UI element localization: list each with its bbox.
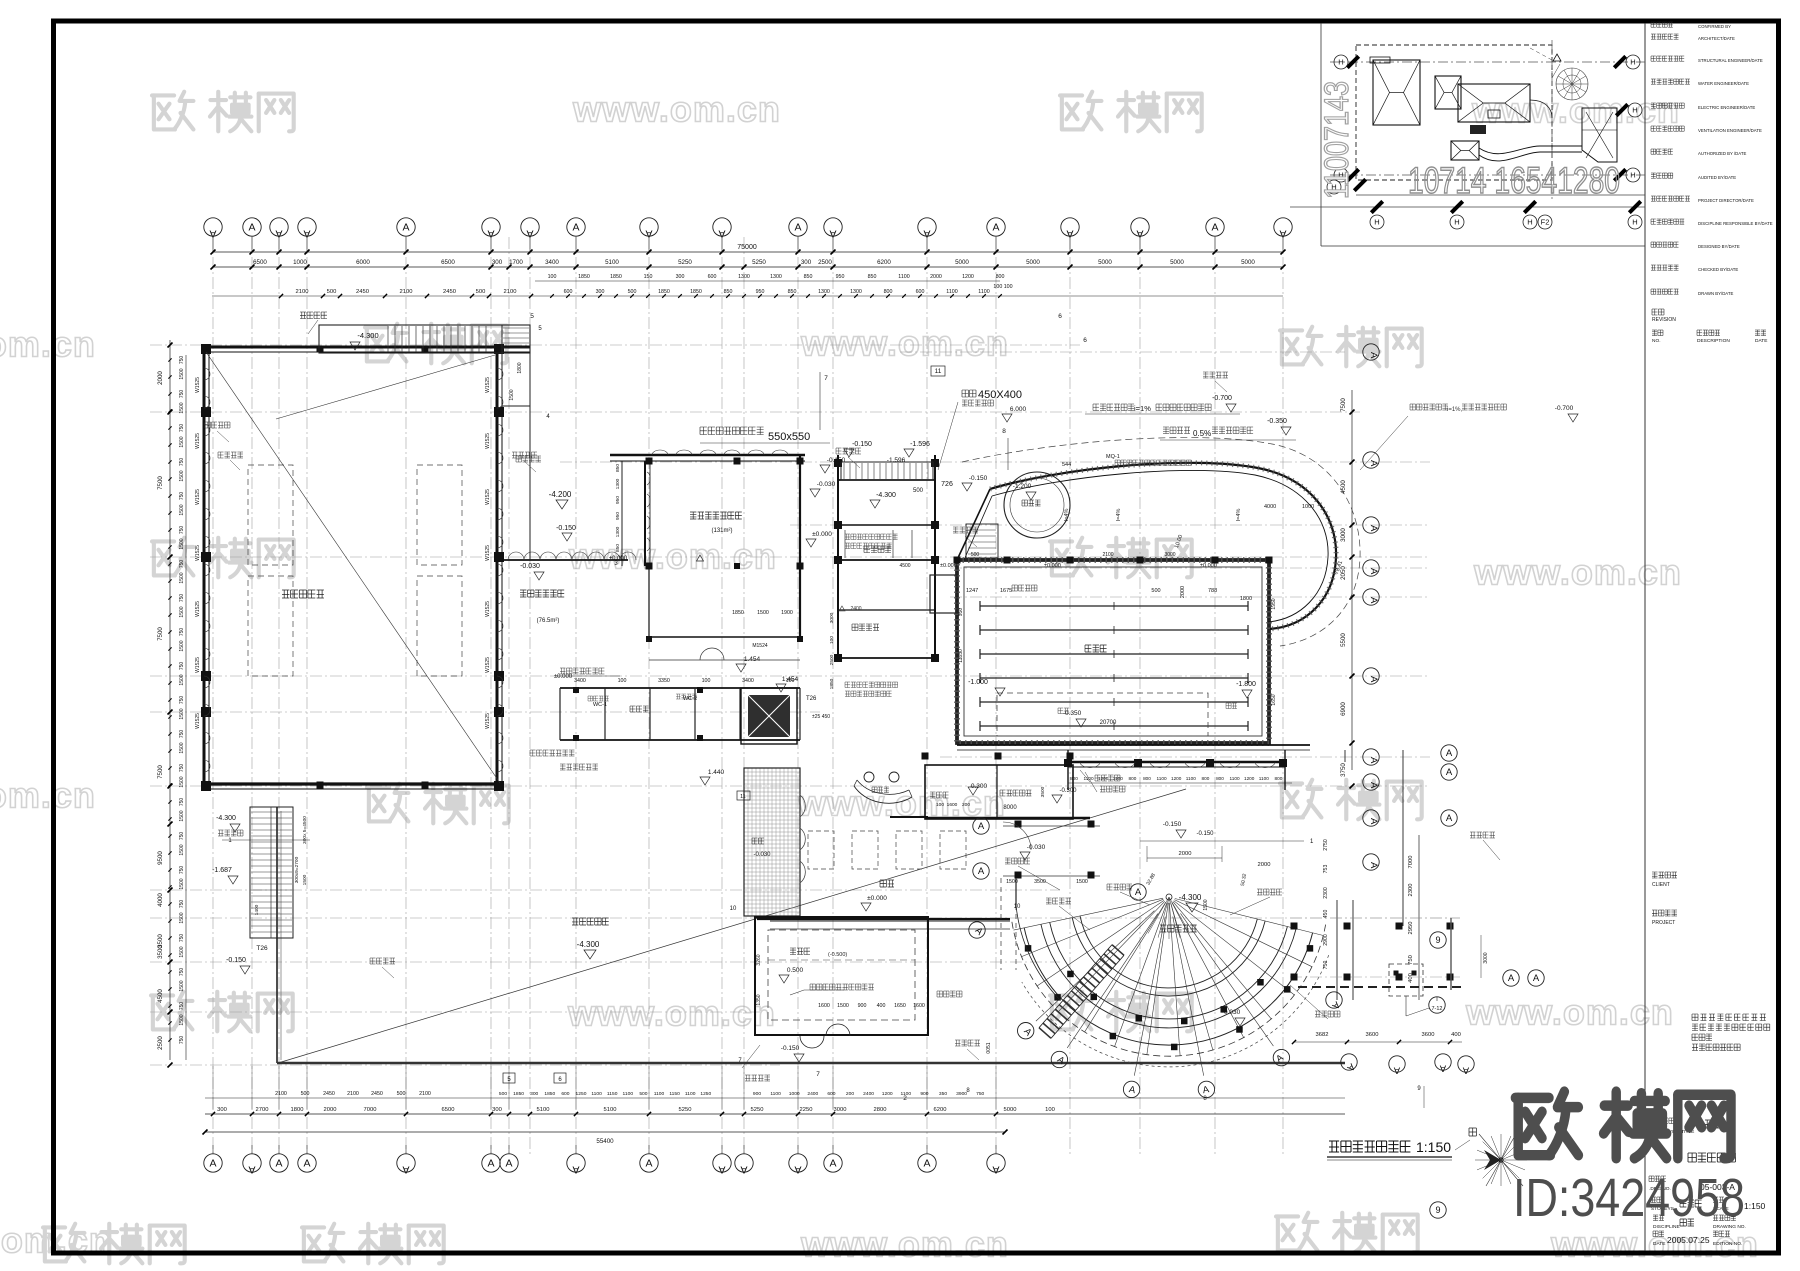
svg-text:1100: 1100: [770, 1091, 781, 1097]
svg-text:500: 500: [971, 552, 980, 558]
svg-text:1100: 1100: [898, 274, 909, 280]
svg-text:1500: 1500: [179, 504, 185, 515]
svg-text:2950: 2950: [1408, 922, 1414, 935]
svg-text:H: H: [1632, 218, 1637, 227]
svg-text:DISCIPLINE RESPONSIBLE BY/DATE: DISCIPLINE RESPONSIBLE BY/DATE: [1698, 221, 1773, 226]
svg-text:A: A: [978, 866, 985, 877]
svg-text:9: 9: [1435, 935, 1440, 945]
svg-text:800: 800: [996, 274, 1005, 280]
svg-text:3400: 3400: [742, 678, 754, 684]
svg-text:2100: 2100: [296, 289, 309, 295]
svg-text:750: 750: [179, 662, 185, 671]
svg-text:A: A: [487, 1158, 494, 1170]
svg-text:750: 750: [1408, 955, 1414, 965]
svg-text:-0.150: -0.150: [226, 957, 246, 964]
svg-text:2000: 2000: [324, 1107, 337, 1113]
svg-text:1250: 1250: [700, 1091, 711, 1097]
svg-text:3400: 3400: [574, 678, 586, 684]
svg-text:A: A: [572, 222, 579, 234]
svg-text:5000: 5000: [1241, 259, 1255, 266]
svg-text:-0.150: -0.150: [1163, 821, 1182, 828]
svg-text:1850: 1850: [732, 610, 744, 616]
svg-text:A: A: [794, 222, 801, 234]
svg-text:1850: 1850: [610, 274, 622, 280]
svg-text:A: A: [402, 1164, 409, 1176]
svg-text:A: A: [794, 1164, 801, 1176]
svg-text:11: 11: [935, 368, 942, 375]
svg-text:3600: 3600: [1366, 1032, 1379, 1038]
svg-text:3000: 3000: [1483, 952, 1489, 963]
svg-text:3500: 3500: [157, 934, 164, 948]
svg-text:2450: 2450: [443, 289, 456, 295]
svg-text:7: 7: [824, 375, 828, 382]
svg-text:1500: 1500: [179, 606, 185, 617]
svg-text:500: 500: [476, 289, 486, 295]
svg-text:DESCRIPTION: DESCRIPTION: [1697, 338, 1730, 344]
svg-text:-0.030: -0.030: [753, 852, 771, 858]
svg-text:A: A: [1368, 862, 1379, 869]
svg-text:H: H: [1454, 218, 1459, 227]
svg-text:1000: 1000: [789, 1091, 800, 1097]
svg-text:-1.596: -1.596: [887, 457, 906, 464]
svg-text:100: 100: [1045, 1107, 1055, 1113]
svg-text:800: 800: [1274, 776, 1282, 781]
svg-text:1.454: 1.454: [782, 676, 799, 683]
svg-text:AUDITED BY/DATE: AUDITED BY/DATE: [1698, 175, 1736, 180]
svg-text:800: 800: [1201, 776, 1209, 781]
svg-text:800: 800: [1216, 776, 1224, 781]
svg-text:750: 750: [179, 866, 185, 875]
svg-text:750: 750: [179, 934, 185, 943]
svg-text:750: 750: [976, 1091, 984, 1097]
svg-text:www.om.cn: www.om.cn: [567, 993, 776, 1034]
svg-text:1650: 1650: [1271, 694, 1277, 705]
svg-text:A: A: [1368, 676, 1379, 683]
svg-text:850: 850: [615, 464, 621, 472]
svg-text:A: A: [978, 821, 985, 832]
svg-text:3400: 3400: [545, 259, 559, 266]
svg-text:500: 500: [397, 1091, 406, 1097]
svg-text:2450: 2450: [371, 1091, 383, 1097]
svg-text:A: A: [572, 1164, 579, 1176]
svg-text:100: 100: [618, 678, 627, 684]
svg-text:AUTHORIZED BY /DATE: AUTHORIZED BY /DATE: [1698, 151, 1746, 156]
svg-text:-1.687: -1.687: [212, 867, 232, 874]
svg-text:A: A: [275, 1158, 282, 1170]
svg-text:400: 400: [1451, 1032, 1461, 1038]
svg-text:2300: 2300: [1408, 884, 1414, 897]
svg-text:1100: 1100: [591, 1091, 602, 1097]
svg-text:WC-1: WC-1: [593, 702, 607, 708]
svg-text:7000: 7000: [1408, 856, 1414, 869]
svg-text:5250: 5250: [678, 259, 692, 266]
svg-text:www.om.cn: www.om.cn: [572, 89, 781, 130]
svg-text:6200: 6200: [877, 259, 891, 266]
svg-text:CLIENT: CLIENT: [1652, 882, 1670, 888]
svg-text:MQ-1: MQ-1: [1106, 454, 1120, 460]
svg-text:-4.300: -4.300: [577, 940, 600, 949]
svg-text:A: A: [718, 1164, 725, 1176]
svg-text:1100: 1100: [1259, 776, 1269, 781]
svg-text:-0.030: -0.030: [1027, 844, 1046, 851]
svg-text:500: 500: [913, 488, 924, 494]
svg-text:400: 400: [877, 1003, 886, 1009]
svg-text:1350: 1350: [756, 994, 762, 1005]
svg-text:2000: 2000: [1180, 586, 1186, 598]
svg-text:2450: 2450: [356, 289, 369, 295]
svg-text:(-0.500): (-0.500): [828, 952, 847, 958]
svg-text:0051: 0051: [986, 1042, 992, 1053]
svg-text:1600: 1600: [947, 802, 958, 808]
svg-text:5250: 5250: [751, 1107, 764, 1113]
svg-text:W1525: W1525: [485, 377, 491, 393]
svg-text:350: 350: [939, 1091, 947, 1097]
svg-text:WATER ENGINEER/DATE: WATER ENGINEER/DATE: [1698, 81, 1749, 86]
svg-text:6500: 6500: [253, 259, 267, 266]
svg-text:1500: 1500: [179, 470, 185, 481]
svg-text:I=4%: I=4%: [1116, 509, 1122, 522]
svg-text:-1.000: -1.000: [968, 679, 988, 686]
svg-text:1500: 1500: [757, 610, 769, 616]
svg-text:NO.: NO.: [1652, 338, 1661, 344]
svg-text:750: 750: [179, 696, 185, 705]
svg-text:3500: 3500: [1034, 879, 1046, 885]
svg-text:300: 300: [492, 1107, 502, 1113]
svg-text:950: 950: [756, 289, 765, 295]
svg-text:W1525: W1525: [485, 601, 491, 617]
svg-text:900: 900: [920, 1091, 928, 1097]
svg-text:75000: 75000: [737, 244, 757, 251]
svg-text:1500: 1500: [179, 912, 185, 923]
svg-text:750: 750: [179, 764, 185, 773]
svg-text:3000: 3000: [1164, 552, 1175, 558]
svg-text:2: 2: [903, 1095, 907, 1102]
svg-text:2400: 2400: [807, 1091, 818, 1097]
svg-text:i=1%,: i=1%,: [1447, 407, 1463, 413]
svg-text:2000: 2000: [930, 274, 942, 280]
svg-text:1850: 1850: [690, 289, 702, 295]
svg-text:A: A: [303, 1158, 310, 1170]
svg-text:1100: 1100: [946, 289, 957, 295]
svg-text:1500: 1500: [179, 742, 185, 753]
svg-text:(76.5m²): (76.5m²): [537, 618, 560, 624]
svg-text:1500: 1500: [179, 1014, 185, 1025]
svg-text:±25 450: ±25 450: [812, 714, 830, 720]
svg-text:-4.300: -4.300: [216, 815, 236, 822]
svg-text:(131m²): (131m²): [711, 528, 732, 534]
svg-text:5000: 5000: [1026, 259, 1040, 266]
svg-text:5250: 5250: [752, 259, 766, 266]
svg-text:1000: 1000: [293, 259, 307, 266]
svg-text:1200: 1200: [1171, 776, 1182, 781]
svg-text:A: A: [1508, 973, 1515, 984]
svg-text:W1525: W1525: [485, 489, 491, 505]
svg-text:A: A: [829, 1158, 836, 1170]
svg-text:-4.200: -4.200: [549, 490, 572, 499]
svg-text:A: A: [1368, 525, 1379, 532]
svg-text:1500: 1500: [179, 572, 185, 583]
svg-text:100 100: 100 100: [993, 284, 1012, 290]
svg-text:750: 750: [179, 458, 185, 467]
svg-text:6000: 6000: [356, 259, 370, 266]
svg-text:H: H: [1338, 58, 1343, 67]
svg-text:0.5%: 0.5%: [1193, 429, 1211, 438]
svg-text:www.om.cn: www.om.cn: [1465, 992, 1674, 1033]
svg-text:950: 950: [958, 608, 964, 617]
svg-text:±0.000: ±0.000: [940, 563, 957, 569]
svg-text:850: 850: [868, 274, 877, 280]
svg-text:300: 300: [217, 1107, 227, 1113]
svg-text:750: 750: [179, 832, 185, 841]
svg-text:300x9=2700: 300x9=2700: [294, 856, 300, 883]
svg-text:www.om.cn: www.om.cn: [0, 324, 96, 365]
svg-text:9500: 9500: [157, 851, 164, 865]
svg-text:1500: 1500: [179, 844, 185, 855]
svg-text:H: H: [1374, 218, 1379, 227]
svg-text:950: 950: [615, 496, 621, 504]
svg-text:750: 750: [179, 356, 185, 365]
svg-text:1850: 1850: [544, 1091, 555, 1097]
svg-text:DATE: DATE: [1653, 1241, 1665, 1247]
svg-text:1150: 1150: [607, 1091, 618, 1097]
svg-text:A: A: [1368, 352, 1379, 359]
svg-text:7500: 7500: [1340, 398, 1347, 412]
svg-text:10: 10: [1014, 904, 1021, 910]
svg-text:1600: 1600: [913, 1003, 925, 1009]
svg-text:1850: 1850: [513, 1091, 524, 1097]
svg-text:10: 10: [730, 906, 737, 912]
svg-text:www.om.cn: www.om.cn: [1473, 552, 1682, 593]
svg-text:750: 750: [179, 1002, 185, 1011]
svg-text:W1525: W1525: [195, 433, 201, 449]
svg-text:3682: 3682: [1316, 1032, 1329, 1038]
svg-text:800: 800: [1128, 776, 1136, 781]
svg-text:2000: 2000: [1258, 862, 1271, 868]
svg-text:500: 500: [327, 289, 337, 295]
svg-text:4000: 4000: [157, 893, 164, 907]
svg-text:450: 450: [1323, 910, 1329, 919]
svg-text:-0.030: -0.030: [520, 563, 540, 570]
svg-text:A: A: [740, 1164, 747, 1176]
svg-text:1850: 1850: [829, 678, 835, 689]
svg-text:A: A: [923, 1158, 930, 1170]
svg-text:1500: 1500: [179, 980, 185, 991]
svg-text:www.om.cn: www.om.cn: [568, 536, 777, 577]
svg-text:900: 900: [753, 1091, 761, 1097]
svg-text:1850: 1850: [578, 274, 590, 280]
svg-text:A: A: [248, 222, 255, 234]
svg-text:A: A: [1393, 1064, 1400, 1075]
svg-text:55400: 55400: [596, 1138, 614, 1145]
svg-text:STRUCTURAL ENGINEER/DATE: STRUCTURAL ENGINEER/DATE: [1698, 58, 1763, 63]
svg-text:1500: 1500: [179, 538, 185, 549]
svg-text:750: 750: [179, 900, 185, 909]
svg-text:1000: 1000: [1302, 504, 1314, 510]
svg-text:2000: 2000: [1179, 851, 1192, 857]
svg-text:100: 100: [829, 636, 835, 644]
svg-text:-0.700: -0.700: [1212, 395, 1232, 402]
svg-text:1200: 1200: [1244, 776, 1255, 781]
svg-text:-0.300: -0.300: [1059, 788, 1077, 794]
svg-text:600: 600: [708, 274, 717, 280]
svg-text:1150: 1150: [669, 1091, 680, 1097]
svg-text:1500: 1500: [179, 402, 185, 413]
svg-text:750: 750: [179, 424, 185, 433]
svg-text:8: 8: [1002, 428, 1006, 435]
svg-text:0.300: 0.300: [971, 783, 988, 790]
svg-text:300: 300: [801, 259, 812, 266]
svg-text:A: A: [402, 222, 409, 234]
svg-text:2900: 2900: [1323, 934, 1329, 946]
svg-text:3350: 3350: [658, 678, 670, 684]
svg-text:3750: 3750: [1340, 763, 1347, 777]
svg-text:2300: 2300: [1323, 887, 1329, 899]
svg-text:5000: 5000: [1098, 259, 1112, 266]
svg-text:500: 500: [1151, 588, 1160, 594]
svg-text:±0.000: ±0.000: [554, 674, 573, 680]
svg-text:850: 850: [615, 544, 621, 552]
svg-text:W1525: W1525: [195, 601, 201, 617]
svg-text:1500: 1500: [179, 674, 185, 685]
svg-text:-4.300: -4.300: [1179, 893, 1202, 902]
svg-text:W1525: W1525: [195, 377, 201, 393]
svg-text:1:150: 1:150: [1744, 1201, 1766, 1211]
svg-text:W1525: W1525: [485, 713, 491, 729]
svg-text:CONFIRMED BY: CONFIRMED BY: [1698, 24, 1731, 29]
svg-text:8000: 8000: [1003, 805, 1017, 811]
svg-text:300: 300: [530, 1091, 538, 1097]
svg-text:1500: 1500: [179, 946, 185, 957]
svg-text:753: 753: [1323, 865, 1329, 874]
svg-text:T26: T26: [806, 696, 817, 702]
svg-text:1.440: 1.440: [708, 769, 725, 776]
svg-text:H: H: [1527, 218, 1532, 227]
svg-text:600: 600: [561, 1091, 569, 1097]
svg-text:5: 5: [530, 313, 534, 320]
svg-text:5000: 5000: [1004, 1107, 1017, 1113]
svg-text:6: 6: [1083, 337, 1087, 344]
svg-text:4500: 4500: [157, 989, 164, 1003]
svg-text:1100: 1100: [978, 289, 989, 295]
svg-text:5100: 5100: [605, 259, 619, 266]
svg-text:100: 100: [702, 678, 711, 684]
svg-text:-0.150: -0.150: [781, 1045, 800, 1052]
svg-text:1300: 1300: [615, 478, 621, 489]
svg-text:7000: 7000: [364, 1107, 377, 1113]
svg-text:DRAWN BY/DATE: DRAWN BY/DATE: [1698, 291, 1733, 296]
svg-text:2400: 2400: [850, 606, 861, 612]
svg-text:550x550: 550x550: [768, 431, 810, 443]
svg-text:2700: 2700: [256, 1107, 269, 1113]
svg-text:1300: 1300: [850, 289, 862, 295]
svg-text:6900: 6900: [1340, 702, 1347, 716]
svg-text:800: 800: [1143, 776, 1151, 781]
svg-text:1650: 1650: [894, 1003, 906, 1009]
svg-text:800: 800: [1070, 776, 1078, 781]
svg-text:4000: 4000: [1264, 504, 1276, 510]
svg-text:750: 750: [179, 628, 185, 637]
svg-text:750: 750: [179, 730, 185, 739]
svg-text:1500: 1500: [302, 874, 308, 885]
svg-text:-0.350: -0.350: [1267, 418, 1287, 425]
svg-text:750: 750: [179, 560, 185, 569]
svg-text:2000: 2000: [157, 371, 164, 385]
svg-text:ELECTRIC ENGINEER/DATE: ELECTRIC ENGINEER/DATE: [1698, 105, 1755, 110]
svg-text:A: A: [645, 1158, 652, 1170]
svg-text:1200: 1200: [962, 274, 974, 280]
svg-text:7500: 7500: [157, 765, 164, 779]
svg-text:2450: 2450: [323, 1091, 335, 1097]
svg-text:1500: 1500: [179, 708, 185, 719]
svg-text:6500: 6500: [441, 259, 455, 266]
svg-text:W1525: W1525: [485, 545, 491, 561]
svg-text:A: A: [1446, 767, 1453, 778]
svg-text:M1524: M1524: [752, 643, 768, 649]
svg-text:2005.07.25: 2005.07.25: [1667, 1235, 1710, 1245]
svg-text:750: 750: [179, 1036, 185, 1045]
svg-text:1300: 1300: [615, 526, 621, 537]
svg-text:W1525: W1525: [195, 545, 201, 561]
svg-text:1100: 1100: [1186, 776, 1196, 781]
svg-text:A: A: [1368, 757, 1379, 764]
svg-text:1100: 1100: [685, 1091, 696, 1097]
svg-text:4500: 4500: [899, 563, 910, 569]
svg-text:2400: 2400: [863, 1091, 874, 1097]
svg-text:100: 100: [936, 802, 944, 808]
svg-text:-4.300: -4.300: [357, 331, 378, 340]
svg-text:A: A: [1368, 818, 1379, 825]
svg-text:2100: 2100: [347, 1091, 359, 1097]
svg-text:±0.000: ±0.000: [867, 895, 887, 902]
svg-text:A: A: [248, 1164, 255, 1176]
svg-text:500: 500: [639, 1091, 647, 1097]
svg-text:2500: 2500: [157, 1036, 164, 1050]
svg-text:A: A: [1446, 813, 1453, 824]
svg-text:-0.030: -0.030: [1222, 1009, 1241, 1016]
svg-text:950: 950: [615, 512, 621, 520]
svg-text:850: 850: [788, 289, 797, 295]
svg-text:H: H: [1630, 171, 1635, 180]
svg-text:ID:3424958: ID:3424958: [1513, 1168, 1745, 1228]
svg-text:A: A: [1368, 460, 1379, 467]
svg-text:5500: 5500: [1340, 633, 1347, 647]
svg-text:1100: 1100: [623, 1091, 634, 1097]
svg-text:A: A: [1368, 782, 1379, 789]
svg-text:T26: T26: [256, 945, 268, 952]
svg-text:A: A: [1533, 973, 1540, 984]
svg-text:-1.596: -1.596: [910, 441, 930, 448]
svg-text:3500: 3500: [1040, 786, 1046, 797]
svg-text:A: A: [1211, 222, 1218, 234]
svg-text:150: 150: [644, 274, 653, 280]
svg-text:750: 750: [179, 798, 185, 807]
svg-text:7-12: 7-12: [1431, 1006, 1442, 1012]
svg-text:600: 600: [827, 1091, 835, 1097]
svg-text:5250: 5250: [679, 1107, 692, 1113]
svg-text:544: 544: [1062, 462, 1071, 468]
svg-text:1100: 1100: [654, 1091, 665, 1097]
svg-text:1100: 1100: [1230, 776, 1240, 781]
svg-text:www.om.cn: www.om.cn: [800, 1224, 1009, 1265]
svg-text:2750: 2750: [1323, 839, 1329, 851]
svg-text:A: A: [209, 1158, 216, 1170]
svg-text:A: A: [1446, 748, 1453, 759]
svg-text:200: 200: [846, 1091, 854, 1097]
svg-text:750: 750: [179, 390, 185, 399]
svg-text:900: 900: [858, 1003, 867, 1009]
svg-text:-0.150: -0.150: [852, 441, 872, 448]
svg-text:9: 9: [1435, 1205, 1440, 1215]
